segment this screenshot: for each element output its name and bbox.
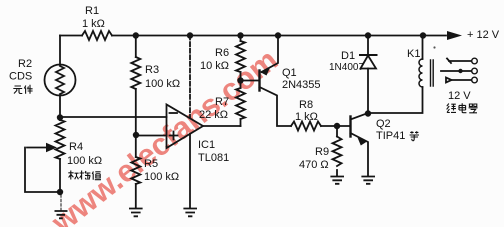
- svg-text:Q1: Q1: [282, 67, 297, 79]
- svg-text:100 kΩ: 100 kΩ: [144, 171, 179, 183]
- svg-text:+ 12 V: + 12 V: [467, 29, 500, 41]
- svg-text:Q2: Q2: [376, 118, 391, 130]
- svg-text:TL081: TL081: [198, 152, 229, 164]
- svg-text:R7: R7: [215, 96, 229, 108]
- svg-text:CDS: CDS: [9, 71, 32, 83]
- svg-text:R2: R2: [18, 58, 32, 70]
- svg-text:R5: R5: [144, 158, 158, 170]
- svg-text:R6: R6: [215, 47, 229, 59]
- svg-text:1N4007: 1N4007: [329, 62, 364, 73]
- svg-text:1 kΩ: 1 kΩ: [295, 111, 318, 123]
- svg-text:1 kΩ: 1 kΩ: [82, 18, 105, 30]
- svg-text:D1: D1: [341, 50, 355, 62]
- svg-text:R1: R1: [85, 5, 99, 17]
- svg-text:2N4355: 2N4355: [282, 79, 321, 91]
- svg-text:10 kΩ: 10 kΩ: [200, 60, 229, 72]
- svg-text:R4: R4: [69, 141, 83, 153]
- svg-text:TIP41: TIP41: [376, 130, 405, 142]
- svg-text:100 kΩ: 100 kΩ: [145, 78, 180, 90]
- svg-text:12 V: 12 V: [448, 90, 471, 102]
- svg-text:IC1: IC1: [198, 139, 215, 151]
- svg-text:R9: R9: [315, 146, 329, 158]
- svg-text:K1: K1: [407, 48, 420, 60]
- svg-text:470 Ω: 470 Ω: [299, 159, 329, 171]
- svg-text:100 kΩ: 100 kΩ: [67, 155, 102, 167]
- svg-text:22 kΩ: 22 kΩ: [199, 109, 228, 121]
- svg-text:R8: R8: [299, 99, 313, 111]
- svg-text:R3: R3: [145, 64, 159, 76]
